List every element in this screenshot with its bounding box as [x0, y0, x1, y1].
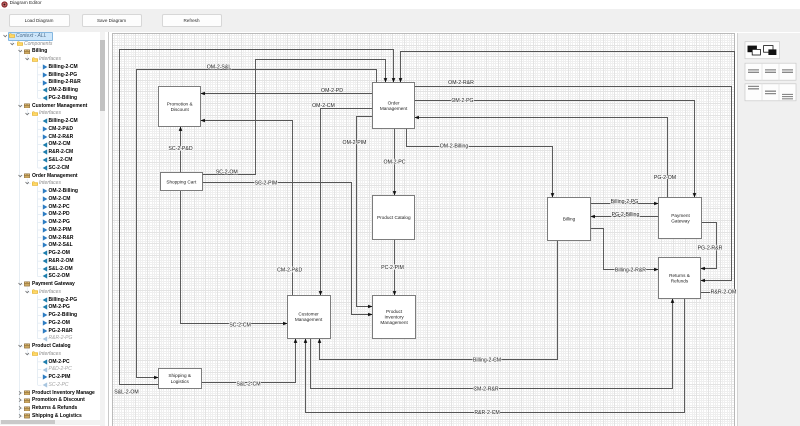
wire SC-2-OM — [203, 60, 388, 176]
button Load Diagram — [9, 14, 70, 27]
svg-text:Order: Order — [388, 100, 400, 105]
svg-text:S&L-2-OM: S&L-2-OM — [114, 389, 139, 395]
tree row: PG-2-OM — [0, 249, 109, 257]
tree row: S&amp;L-2-CM — [0, 156, 109, 164]
wire OM-2-R&amp;R — [415, 80, 732, 282]
svg-text:Shopping Cart: Shopping Cart — [166, 179, 197, 184]
tree row: Returns &amp; Refunds — [0, 404, 109, 412]
svg-text:OM-2-PG: OM-2-PG — [451, 98, 473, 104]
toolbar — [0, 9, 800, 32]
svg-text:Inventory: Inventory — [384, 314, 404, 319]
svg-text:SC-2-PIM: SC-2-PIM — [255, 181, 278, 187]
wire Billing-2-PG — [591, 199, 659, 205]
svg-text:Customer: Customer — [298, 312, 319, 317]
wire R&amp;R-2-CM — [304, 299, 685, 417]
svg-text:Discount: Discount — [171, 107, 190, 112]
tree row: OM-2-Billing — [0, 86, 109, 94]
svg-text:Refunds: Refunds — [671, 278, 689, 283]
wire R&amp;R-2-OM — [399, 52, 737, 296]
svg-text:R&R-2-OM: R&R-2-OM — [711, 290, 737, 296]
svg-text:OM-2-R&R: OM-2-R&R — [448, 80, 474, 86]
wire OM-2-S&amp;L — [137, 64, 377, 379]
tree row: OM-2-PC — [0, 358, 109, 366]
panel group: middle alignment icons — [745, 63, 796, 80]
component box Product Catalog — [373, 196, 415, 240]
svg-text:Promotion &: Promotion & — [167, 101, 194, 106]
tree row: PG-2-OM — [0, 319, 109, 327]
svg-text:PG-2-OM: PG-2-OM — [654, 175, 676, 181]
tree row: Interfaces — [0, 350, 109, 358]
svg-text:Management: Management — [380, 320, 408, 325]
sidebar — [0, 32, 109, 426]
tree row: Billing — [0, 47, 109, 55]
tree row: Shipping &amp; Logistics — [0, 412, 109, 420]
tree row: Billing-2-R&amp;R — [0, 78, 109, 86]
svg-text:Product Catalog: Product Catalog — [377, 215, 411, 220]
wire PC-2-PIM — [381, 240, 404, 296]
sidebar vertical scrollbar — [100, 32, 105, 426]
tree row: Billing-2-CM — [0, 117, 109, 125]
tree row: Interfaces — [0, 55, 109, 63]
tree guide lines — [0, 32, 109, 426]
svg-text:OM-2-PD: OM-2-PD — [321, 88, 343, 94]
svg-text:Billing-2-R&R: Billing-2-R&R — [615, 267, 646, 273]
svg-text:OM-2-PC: OM-2-PC — [384, 160, 406, 166]
tree row: Product Catalog — [0, 342, 109, 350]
tree row: Interfaces — [0, 288, 109, 296]
component box Promotion &amp; Discount — [159, 87, 201, 127]
title bar — [0, 0, 800, 9]
svg-text:R&R-2-CM: R&R-2-CM — [474, 410, 499, 416]
tree row: R&amp;R-2-CM — [0, 148, 109, 156]
tree row: OM-2-CM — [0, 195, 109, 203]
tree row: Promotion &amp; Discount — [0, 396, 109, 404]
tree row: SC-2-PC — [0, 381, 109, 389]
wire OM-2-CM — [312, 103, 372, 295]
tree row: OM-2-Billing — [0, 187, 109, 195]
svg-text:CM-2-R&R: CM-2-R&R — [473, 386, 499, 392]
tree row: Payment Gateway — [0, 280, 109, 288]
button Refresh — [162, 14, 222, 27]
tree row: OM-2-PC — [0, 202, 109, 210]
component box Shipping &amp; Logistics — [159, 369, 202, 389]
svg-text:S&L-2-CM: S&L-2-CM — [236, 381, 260, 387]
wire Billing-2-CM — [318, 241, 558, 364]
button Save Diagram — [82, 14, 142, 27]
sidebar horizontal scrollbar — [0, 420, 100, 425]
svg-text:SC-2-CM: SC-2-CM — [229, 323, 251, 329]
tree row: Product Inventory Manage — [0, 389, 109, 397]
wire SC-2-CM — [181, 191, 288, 329]
tree row: OM-2-PIM — [0, 226, 109, 234]
svg-text:SC-2-OM: SC-2-OM — [216, 170, 238, 176]
wire OM-2-PIM — [343, 117, 373, 309]
tree row: CM-2-P&amp;D — [0, 125, 109, 133]
tree row: P&amp;D-2-PC — [0, 365, 109, 373]
canvas grid background — [112, 33, 736, 426]
tree row: OM-2-PG — [0, 303, 109, 311]
tree row: Components — [0, 40, 109, 48]
svg-text:OM-2-PIM: OM-2-PIM — [343, 140, 367, 146]
svg-text:PC-2-PIM: PC-2-PIM — [381, 265, 404, 271]
component box Product Inventory Management — [373, 296, 416, 339]
svg-text:OM-2-S&L: OM-2-S&L — [207, 64, 232, 70]
svg-text:PG-2-Billing: PG-2-Billing — [612, 212, 640, 218]
component box Billing — [548, 198, 591, 241]
tree row: Context - ALL — [0, 32, 109, 40]
tree row: Billing-2-CM — [0, 63, 109, 71]
tree row: Interfaces — [0, 109, 109, 117]
tree row: PG-2-R&amp;R — [0, 327, 109, 335]
wire OM-2-PG — [415, 98, 697, 198]
wire S&amp;L-2-CM — [202, 339, 298, 388]
tree row: OM-2-PG — [0, 218, 109, 226]
panel group: window style toggles — [737, 33, 800, 113]
svg-text:Billing-2-CM: Billing-2-CM — [473, 357, 501, 363]
wire OM-2-PC — [384, 129, 406, 196]
component box Order Management — [373, 83, 415, 129]
svg-text:Billing: Billing — [563, 216, 576, 221]
svg-text:Shipping &: Shipping & — [168, 373, 192, 378]
svg-text:Returns &: Returns & — [669, 273, 691, 278]
svg-text:CM-2-P&D: CM-2-P&D — [277, 268, 302, 274]
svg-text:OM-2-CM: OM-2-CM — [312, 103, 335, 109]
svg-text:Payment: Payment — [671, 213, 690, 218]
tree row: OM-2-CM — [0, 140, 109, 148]
wire PG-2-R&amp;R — [698, 223, 723, 271]
svg-text:Management: Management — [295, 317, 323, 322]
tree row: Billing-2-PG — [0, 71, 109, 79]
component box Shopping Cart — [161, 173, 203, 191]
component box Payment Gateway — [659, 198, 702, 239]
svg-text:Gateway: Gateway — [671, 219, 690, 224]
tree row: Billing-2-PG — [0, 296, 109, 304]
svg-text:Logistics: Logistics — [171, 379, 190, 384]
wire PG-2-OM — [415, 116, 677, 198]
wire SC-2-PIM — [203, 181, 373, 317]
component box Customer Management — [288, 296, 331, 339]
tree row: PG-2-Billing — [0, 94, 109, 102]
right options panel — [737, 33, 800, 426]
wire CM-2-P&amp;D — [201, 119, 303, 296]
svg-text:Management: Management — [380, 106, 408, 111]
svg-text:Billing-2-PG: Billing-2-PG — [611, 199, 639, 205]
tree row: PG-2-Billing — [0, 311, 109, 319]
app icon — [1, 1, 8, 8]
tree row: Customer Management — [0, 102, 109, 110]
component box Returns &amp; Refunds — [659, 258, 701, 299]
tree row: PC-2-PIM — [0, 373, 109, 381]
wire OM-2-PD — [201, 88, 373, 95]
wire CM-2-R&amp;R — [311, 299, 675, 393]
tree row: S&amp;L-2-OM — [0, 265, 109, 273]
tree row: R&amp;R-2-OM — [0, 257, 109, 265]
tree row: Interfaces — [0, 179, 109, 187]
svg-text:OM-2-Billing: OM-2-Billing — [440, 144, 469, 150]
wire SC-2-P&amp;D — [168, 127, 192, 173]
wire OM-2-Billing — [407, 129, 555, 198]
panel group: vertical alignment icons — [745, 83, 796, 100]
tree row: SC-2-OM — [0, 272, 109, 280]
title text — [10, 1, 42, 6]
svg-text:PG-2-R&R: PG-2-R&R — [698, 245, 723, 251]
wire S&amp;L-2-OM — [114, 50, 395, 396]
svg-text:SC-2-P&D: SC-2-P&D — [168, 146, 192, 152]
tree row: OM-2-S&amp;L — [0, 241, 109, 249]
tree row: OM-2-PD — [0, 210, 109, 218]
tree row: CM-2-R&amp;R — [0, 133, 109, 141]
svg-text:Product: Product — [386, 309, 403, 314]
wire PG-2-Billing — [591, 212, 659, 218]
tree row: R&amp;R-2-PG — [0, 334, 109, 342]
wire Billing-2-R&amp;R — [591, 229, 659, 274]
tree row: OM-2-R&amp;R — [0, 233, 109, 241]
tree row: SC-2-CM — [0, 164, 109, 172]
tree row: Order Management — [0, 171, 109, 179]
